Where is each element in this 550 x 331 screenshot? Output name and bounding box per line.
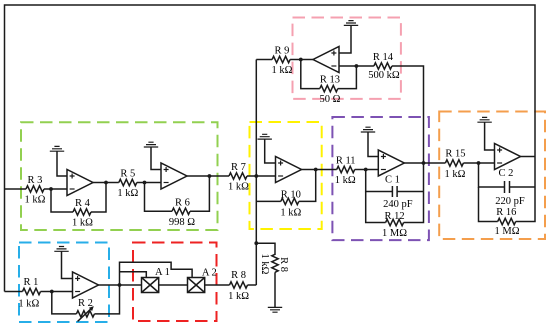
wire R5 to U3 — [137, 182, 161, 184]
wire squaring taps to A1/A2 top inputs — [120, 262, 193, 285]
wire A1 to A2 — [159, 284, 188, 286]
wire GND5 to U6 + input — [485, 122, 495, 150]
svg-text:R 3: R 3 — [28, 175, 43, 186]
wire R9 line from main vertical — [256, 59, 272, 61]
wire R3 to U2 — [44, 188, 67, 190]
node G (R11/C1/R12 junction) — [364, 168, 368, 172]
svg-text:R 11: R 11 — [336, 156, 356, 167]
wire U7 + input to GND7 — [339, 25, 351, 53]
resistor R10 feedback — [256, 200, 281, 202]
svg-text:R 13: R 13 — [320, 75, 340, 86]
ground GND8 — [268, 307, 282, 312]
capacitor C1 — [366, 170, 424, 192]
wire GND4 to U5 + input — [368, 132, 378, 157]
svg-text:R 5: R 5 — [120, 169, 135, 180]
svg-text:R 15: R 15 — [445, 149, 465, 160]
ground GND5 — [477, 117, 491, 122]
svg-text:R 1: R 1 — [24, 277, 39, 288]
svg-text:R 12: R 12 — [385, 211, 405, 222]
wire left input bus to R3 — [5, 188, 27, 190]
svg-text:1 kΩ: 1 kΩ — [117, 188, 138, 199]
node E (main vertical / R7) — [254, 174, 258, 178]
ground GND1 — [50, 146, 64, 151]
region box (pink) feedback amp — [293, 18, 401, 99]
node F (U4 out) — [314, 168, 318, 172]
wire R8 to main vertical — [248, 284, 257, 286]
wire R15 to U6 — [463, 162, 494, 164]
node L (R1/R2 junction) — [50, 290, 54, 294]
resistor R6 feedback — [145, 183, 173, 212]
node B (U2 out) — [104, 181, 108, 185]
svg-text:1 kΩ: 1 kΩ — [72, 218, 93, 229]
svg-text:1 kΩ: 1 kΩ — [18, 299, 39, 310]
svg-text:1 MΩ: 1 MΩ — [494, 226, 519, 237]
node M (U1 out / A1 drive) — [118, 283, 122, 287]
resistor R16 feedback — [479, 187, 498, 222]
region box (green) gain stages — [21, 122, 218, 230]
svg-text:240 pF: 240 pF — [383, 199, 413, 210]
svg-text:1 kΩ: 1 kΩ — [335, 175, 356, 186]
resistor R12 feedback — [366, 192, 386, 223]
svg-text:1 MΩ: 1 MΩ — [382, 228, 407, 239]
node K (U7 -/R13/R14 junction) — [355, 64, 359, 68]
wire U2 output — [93, 182, 119, 184]
svg-text:220 pF: 220 pF — [495, 196, 525, 207]
svg-text:1 kΩ: 1 kΩ — [280, 208, 301, 219]
resistor R3 — [26, 186, 44, 192]
svg-text:R 9: R 9 — [275, 46, 290, 57]
svg-text:1 kΩ: 1 kΩ — [272, 65, 293, 76]
resistor R8 (shunt, vertical) — [272, 254, 278, 272]
region box (orange) integrator 2 — [439, 112, 545, 240]
wire U4 output to R11 — [302, 169, 337, 171]
svg-text:998 Ω: 998 Ω — [169, 217, 195, 228]
svg-text:1 kΩ: 1 kΩ — [25, 195, 46, 206]
svg-text:500 kΩ: 500 kΩ — [368, 70, 400, 81]
node A (R3/R4 junction) — [49, 187, 53, 191]
op-amp U3 — [161, 163, 187, 189]
svg-text:R 6: R 6 — [175, 198, 190, 209]
op-amp U5 — [378, 150, 404, 176]
ground GND6 — [54, 247, 68, 252]
op-amp U4 — [276, 157, 302, 183]
node I (R15/C2/R16 junction) — [477, 161, 481, 165]
node N (bus tap) — [254, 241, 258, 245]
resistor R11 — [337, 166, 355, 172]
wire node N to shunt R8 — [256, 243, 275, 255]
svg-text:A 2: A 2 — [202, 268, 217, 279]
multiplier A2 — [188, 278, 205, 293]
op-amp U2 — [67, 170, 93, 196]
svg-text:R 7: R 7 — [231, 162, 246, 173]
svg-text:R 14: R 14 — [373, 52, 394, 63]
node C (R5/R6 junction) — [143, 181, 147, 185]
wire main vertical bus — [255, 60, 257, 286]
resistor R8 (series) — [230, 282, 248, 288]
ground GND7 — [344, 21, 358, 26]
node J (U7 out / R13 tap) — [299, 58, 303, 62]
ground GND2 — [144, 142, 158, 147]
resistor R15 — [445, 160, 463, 166]
wire U6 output to feedback bus — [521, 157, 536, 188]
svg-text:R 8: R 8 — [278, 257, 289, 272]
wire GND2 to U3 + input — [151, 147, 161, 170]
region box (yellow) summing amp — [250, 122, 322, 229]
resistor R4 feedback — [51, 189, 73, 212]
svg-text:R 2: R 2 — [78, 298, 93, 309]
svg-text:R 4: R 4 — [75, 198, 91, 209]
wire U7 - input to R14 — [339, 65, 374, 67]
svg-text:1 kΩ: 1 kΩ — [259, 254, 270, 275]
op-amp U7 (left-pointing) — [313, 47, 339, 73]
ground GND3 — [258, 134, 272, 139]
svg-text:1 kΩ: 1 kΩ — [228, 291, 249, 302]
wire GND3 to U4 + input — [265, 139, 276, 163]
wire shunt R8 to ground — [274, 272, 276, 307]
op-amp U6 — [495, 144, 521, 170]
resistor R7 — [229, 173, 247, 179]
wire R7 to U4 — [247, 175, 276, 177]
op-amp U1 — [73, 272, 99, 298]
resistor R5 — [119, 179, 137, 185]
resistor R13 feedback — [301, 60, 320, 89]
resistor R14 — [374, 63, 392, 69]
region box (cyan) input amp — [19, 243, 109, 323]
resistor R2 (variable) feedback — [52, 292, 77, 314]
node H (U5 out / R14 tap) — [422, 161, 426, 165]
svg-text:R 16: R 16 — [496, 207, 516, 218]
svg-text:R 8: R 8 — [231, 270, 246, 281]
node D (U3 out / R6 tap) — [208, 174, 212, 178]
wire U3 output to R7 — [187, 175, 229, 177]
wire left input bus to R1 — [5, 291, 23, 293]
svg-text:C 2: C 2 — [499, 168, 514, 179]
wire GND6 to U1 + input — [62, 251, 73, 278]
wire A2 to R8 — [205, 284, 230, 286]
capacitor C2 — [479, 163, 536, 187]
region box (purple) integrator 1 — [332, 117, 429, 240]
resistor R9 — [272, 56, 290, 62]
wire R11 to U5 — [355, 169, 379, 171]
ground GND4 — [361, 127, 375, 132]
svg-text:50 Ω: 50 Ω — [320, 94, 341, 105]
multiplier A1 — [142, 278, 159, 293]
svg-text:1 kΩ: 1 kΩ — [228, 182, 249, 193]
wire R1 to U1 — [41, 291, 73, 293]
resistor R1 — [23, 288, 41, 294]
region box (red) multipliers — [133, 243, 217, 322]
svg-text:A 1: A 1 — [155, 267, 170, 278]
wire U1 output — [99, 284, 142, 286]
svg-text:C 1: C 1 — [385, 175, 400, 186]
wire R14 to U5 output node — [392, 66, 424, 163]
wire GND1 to U2 + input — [57, 151, 67, 176]
wire R9 to U7 output — [290, 59, 313, 61]
svg-text:R 10: R 10 — [281, 190, 301, 201]
wire U5 output to R15 — [404, 162, 445, 164]
svg-text:1 kΩ: 1 kΩ — [445, 169, 466, 180]
